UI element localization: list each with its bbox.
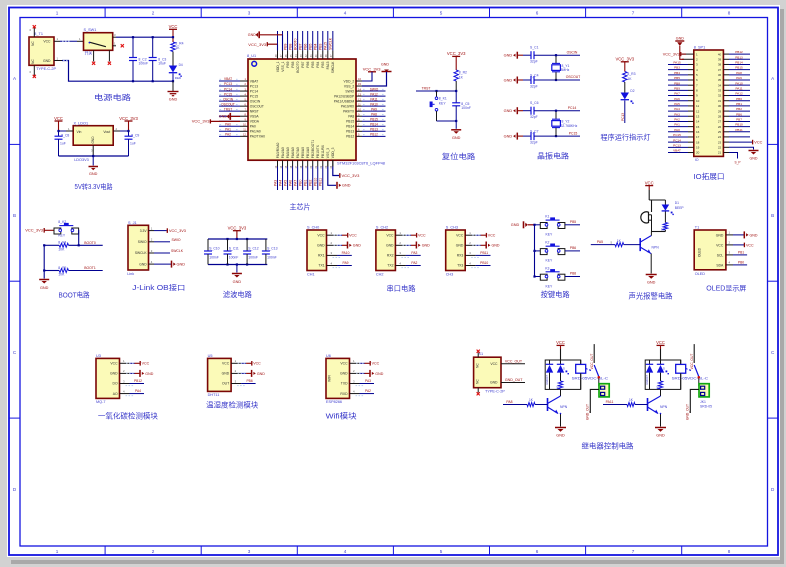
svg-text:39: 39 [718, 57, 722, 61]
relay coil box SRD-05VDC-SL-C [545, 360, 609, 389]
svg-text:PB13: PB13 [346, 130, 354, 134]
ground flag S_C4 row [504, 77, 523, 84]
svg-text:6: 6 [536, 549, 539, 554]
svg-text:3: 3 [248, 549, 251, 554]
svg-text:4: 4 [344, 549, 347, 554]
U3 pin1 VCC [120, 359, 150, 366]
IO header SP1 left pin 4 PB3 [668, 66, 698, 72]
connector S_CH0 CH1 [307, 226, 327, 277]
svg-text:K1: K1 [545, 215, 549, 219]
MCU U1 top pin PA15 [324, 31, 330, 69]
U6 pin3 PA3 [350, 379, 375, 386]
svg-text:19: 19 [696, 146, 700, 150]
svg-text:PA4/A0: PA4/A0 [281, 147, 285, 158]
svg-text:37: 37 [718, 68, 722, 72]
svg-text:PB12: PB12 [735, 50, 743, 54]
svg-text:VCC_3V3: VCC_3V3 [25, 228, 44, 233]
svg-text:VCC_3V3: VCC_3V3 [119, 116, 138, 121]
power port VCC relay [656, 340, 665, 360]
pushbutton K3 KEY [535, 266, 565, 288]
svg-text:30: 30 [718, 104, 722, 108]
svg-text:PB14: PB14 [346, 125, 354, 129]
svg-text:VCC: VCC [556, 340, 565, 345]
svg-text:PC13: PC13 [673, 143, 681, 147]
svg-text:滤波电路: 滤波电路 [223, 290, 252, 299]
svg-text:8_R4: 8_R4 [175, 41, 183, 45]
svg-text:100nF: 100nF [139, 61, 149, 65]
IO header SP1 right pin 32 PA12 [718, 92, 750, 98]
U5 pin3 PB6 [231, 379, 256, 386]
svg-text:PA2: PA2 [365, 389, 371, 393]
svg-text:PB6: PB6 [570, 246, 576, 250]
svg-text:PA3: PA3 [674, 112, 680, 116]
svg-text:MQ-7: MQ-7 [96, 400, 106, 404]
svg-text:一氧化碳检测模块: 一氧化碳检测模块 [98, 411, 158, 420]
svg-text:U3: U3 [96, 354, 101, 358]
IO header SP1 right pin 22 [718, 146, 722, 150]
ground flag keys [511, 221, 535, 228]
capacitor S_C11 100nF [224, 239, 239, 265]
svg-text:GND: GND [504, 109, 513, 113]
svg-text:PA1: PA1 [225, 128, 231, 132]
svg-text:OLED显示屏: OLED显示屏 [706, 285, 746, 293]
wire VCC to Vin [57, 127, 73, 132]
svg-text:VDD_3: VDD_3 [331, 147, 335, 158]
svg-text:PB14: PB14 [370, 122, 378, 126]
svg-text:S_CH0: S_CH0 [307, 226, 319, 230]
MCU U1 right pin PA10/RX [341, 102, 386, 108]
svg-text:SWCLK: SWCLK [171, 249, 184, 253]
svg-text:继电器控制电路: 继电器控制电路 [582, 441, 634, 450]
svg-text:29: 29 [718, 109, 722, 113]
svg-text:PB9: PB9 [286, 61, 290, 67]
svg-text:GND: GND [317, 244, 325, 248]
svg-text:B: B [771, 213, 774, 218]
svg-text:12: 12 [696, 109, 700, 113]
capacitor S_C6 32pF [523, 101, 580, 119]
svg-text:PA9: PA9 [736, 76, 742, 80]
MCU U1 right pin PA8 [348, 112, 385, 118]
IO header SP1 right pin 21 [718, 151, 722, 155]
svg-text:VCC: VCC [372, 362, 380, 366]
flyback diode 1N4007 [545, 360, 553, 389]
svg-text:40: 40 [718, 52, 722, 56]
MCU U1 right pin VSS_2 [344, 82, 362, 88]
svg-text:GND: GND [504, 78, 513, 82]
svg-text:PC15: PC15 [250, 94, 258, 98]
svg-text:B: B [13, 213, 16, 218]
wire T1 VCC to switch SW1 [54, 37, 84, 41]
svg-text:VBAT: VBAT [673, 149, 681, 153]
IO header SP1 left pin 13 PA3 [668, 112, 700, 118]
svg-text:VCC: VCC [418, 234, 426, 238]
power wire VCC_3V3 to U1 VDD_1 [248, 42, 277, 50]
svg-text:PB10: PB10 [735, 123, 743, 127]
svg-text:PA10: PA10 [735, 81, 743, 85]
svg-text:S_C13: S_C13 [267, 247, 277, 251]
resistor 1K alarm [661, 212, 668, 232]
svg-text:S_SW1: S_SW1 [84, 28, 97, 32]
svg-text:8_Y1: 8_Y1 [562, 64, 570, 68]
MCU U1 pin 7 NRST [219, 107, 259, 113]
zone letter strip [9, 76, 778, 492]
ground flag at U1 VSSA [219, 113, 240, 120]
ground GND alarm [646, 275, 657, 285]
caption IO拓展口 [694, 172, 725, 181]
svg-text:OLED: OLED [698, 247, 702, 257]
no-connect X top of T1 [33, 25, 36, 28]
svg-text:RX2: RX2 [387, 254, 394, 258]
IO header SP1 right pin 38 PB14 [718, 61, 750, 67]
wire K2 to PB6 [565, 246, 580, 251]
svg-text:CH2: CH2 [376, 272, 384, 276]
IO header SP1 left pin 11 PA5 [668, 102, 699, 108]
no-connect X top of relay TYPE-C [477, 350, 480, 353]
resistor 8_R3 1K indicator [623, 72, 636, 83]
svg-text:32pF: 32pF [530, 141, 538, 145]
svg-text:VCC: VCC [488, 234, 496, 238]
MCU U1 right pin SWIO [345, 87, 385, 93]
svg-text:Vout: Vout [103, 130, 110, 134]
MCU U1 top pin PB6 [304, 31, 310, 68]
wire LDO ground rail [59, 145, 129, 165]
svg-text:S_C12: S_C12 [248, 247, 258, 251]
svg-text:PB7: PB7 [299, 43, 303, 50]
IO header SP1 right pin 37 PB15 [718, 66, 750, 72]
svg-text:GND: GND [139, 262, 147, 266]
U6 pin2 GND [350, 369, 384, 377]
transistor NPN relay driver [648, 389, 668, 426]
svg-text:PB1/A0: PB1/A0 [306, 147, 310, 158]
capacitor S_C13 100nF [262, 239, 278, 265]
connector T1 TYPE-C-2P [29, 28, 56, 76]
connector S_J1 J-Link [127, 221, 148, 276]
crystal 8_Y2 32.768KHz [552, 110, 578, 138]
svg-text:GND: GND [342, 184, 351, 188]
svg-text:RX3: RX3 [457, 254, 464, 258]
capacitor 8_C5 100nF reset [452, 91, 471, 121]
caption 串口电路 [387, 284, 416, 293]
IO header SP1 right pin 25 PB11 [718, 128, 750, 134]
caption 主芯片 [290, 202, 311, 211]
svg-text:SRD-05VDC-SL-C: SRD-05VDC-SL-C [572, 377, 609, 381]
svg-text:PB2/BOOT1: PB2/BOOT1 [311, 140, 315, 158]
svg-text:GND: GND [257, 372, 265, 376]
svg-text:PB4: PB4 [316, 61, 320, 67]
IO header SP1 left pin 5 PB4 [668, 71, 698, 77]
svg-text:PA10/RX: PA10/RX [341, 104, 355, 108]
svg-text:VCC: VCC [169, 24, 178, 29]
svg-text:GND: GND [750, 233, 758, 237]
relay coil box SRD-05VDC-SL-C [645, 360, 709, 389]
svg-text:PA6/A0: PA6/A0 [291, 147, 295, 158]
svg-text:1N4007: 1N4007 [645, 375, 649, 385]
svg-text:31: 31 [718, 99, 722, 103]
svg-text:VCC: VCC [142, 362, 150, 366]
MCU U1 pin 4 PC15 [219, 92, 258, 98]
svg-text:VCC: VCC [645, 180, 654, 185]
svg-text:GND: GND [381, 63, 389, 67]
svg-text:Vin: Vin [77, 130, 82, 134]
IO header SP1 right pin 27 PB7 [718, 118, 750, 124]
flyback diode 1N4007 [645, 360, 653, 389]
svg-text:VCC: VCC [386, 234, 394, 238]
svg-text:按键电路: 按键电路 [541, 290, 570, 299]
svg-text:OSCOUT: OSCOUT [221, 102, 235, 106]
junction node rail C2 [132, 36, 134, 82]
svg-text:PA1/A0: PA1/A0 [250, 130, 261, 134]
LED D4 [169, 63, 183, 80]
regulator X_LDO1 LDO3V3 [73, 121, 113, 162]
IO header SP1 right pin 36 PA8 [718, 71, 750, 77]
wire K3 to PB8 [565, 272, 580, 277]
switch S_SW1 [84, 28, 113, 62]
svg-text:TX2: TX2 [387, 264, 393, 268]
svg-text:KEY: KEY [58, 234, 66, 238]
svg-text:PB10: PB10 [480, 261, 488, 265]
power port VCC_3V3 indicator [615, 57, 634, 72]
capacitor S_C4 32pF [523, 74, 580, 89]
svg-text:PB9: PB9 [283, 43, 287, 50]
svg-text:S_C1: S_C1 [530, 46, 539, 50]
svg-text:PB8: PB8 [674, 81, 680, 85]
svg-text:20: 20 [696, 151, 700, 155]
MCU U1 right pin PB13 [346, 128, 385, 134]
no-connect X bottom of T1 [33, 75, 36, 78]
wire T1 GND to bottom rail [54, 56, 133, 81]
ground flag S_C1 row [504, 52, 523, 59]
pushbutton K1 KEY [535, 215, 565, 237]
LED D2 indicator [621, 89, 635, 104]
capacitor S_C10 100nF [204, 239, 220, 265]
svg-text:VSS_3: VSS_3 [326, 148, 330, 158]
connector 8_SP1 IO header [694, 46, 724, 162]
caption 5V转3.3V电路 [75, 182, 113, 191]
svg-text:8_R3: 8_R3 [627, 72, 635, 76]
svg-text:PA8: PA8 [348, 115, 354, 119]
svg-text:SRD-05: SRD-05 [700, 405, 712, 409]
svg-text:1K: 1K [556, 386, 560, 390]
svg-text:10K: 10K [58, 273, 65, 277]
svg-text:2: 2 [152, 549, 155, 554]
MCU U1 bottom pin VSS_3 [325, 148, 330, 169]
svg-text:SWCLK: SWCLK [135, 251, 148, 255]
J-Link pin1 wire VCC_3V3 [149, 226, 186, 233]
svg-text:复位电路: 复位电路 [442, 152, 476, 161]
svg-text:GND: GND [492, 244, 500, 248]
IO header SP1 right pin 40 PB12 [718, 50, 750, 56]
svg-text:BEEP: BEEP [675, 206, 685, 210]
IO header SP1 right pin 26 PB10 [718, 123, 750, 129]
svg-text:PB5: PB5 [311, 61, 315, 67]
svg-text:PB8: PB8 [570, 272, 576, 276]
svg-text:SWCLK: SWCLK [331, 61, 335, 74]
svg-text:GND: GND [40, 286, 49, 290]
svg-text:5V转3.3V电路: 5V转3.3V电路 [75, 182, 113, 191]
svg-text:D: D [663, 367, 665, 371]
svg-text:PA10: PA10 [370, 102, 378, 106]
svg-text:2: 2 [152, 11, 155, 16]
svg-text:NPN: NPN [660, 405, 668, 409]
svg-text:JK1: JK1 [700, 400, 706, 404]
svg-text:PA0: PA0 [250, 125, 256, 129]
power wire VCC_3V3 to SP1 pin1 [663, 52, 686, 57]
relay LED resistor 1K [656, 373, 663, 390]
svg-text:GND: GND [375, 372, 383, 376]
svg-text:PA7/A0: PA7/A0 [296, 147, 300, 158]
J-Link pin3 wire SWCLK [149, 249, 184, 253]
svg-text:TYPE-C-2P: TYPE-C-2P [36, 67, 56, 71]
MCU U1 bottom pin PA7/A0 [294, 147, 300, 190]
svg-text:K2: K2 [545, 241, 549, 245]
svg-text:PB7: PB7 [301, 61, 305, 67]
U3 pin2 GND [120, 369, 154, 377]
svg-text:8_C9: 8_C9 [131, 134, 139, 138]
svg-text:GND: GND [222, 372, 230, 376]
svg-text:WIFI: WIFI [328, 375, 332, 382]
svg-text:25: 25 [718, 130, 722, 134]
svg-text:PB12: PB12 [134, 379, 142, 383]
svg-text:18: 18 [696, 140, 700, 144]
svg-text:OSCIN: OSCIN [567, 50, 578, 54]
svg-text:GND: GND [219, 115, 227, 119]
svg-text:NPN: NPN [652, 245, 660, 249]
no-connect X switch pin 3 [108, 62, 111, 65]
svg-text:S_C11: S_C11 [229, 247, 239, 251]
svg-text:4: 4 [344, 11, 347, 16]
svg-text:VCC_OUT: VCC_OUT [590, 354, 594, 370]
module U3 MQ-7 [96, 354, 120, 404]
svg-text:PB11: PB11 [735, 128, 743, 132]
alarm top rail wire [649, 200, 665, 212]
svg-text:PB4: PB4 [314, 43, 318, 50]
svg-text:GND: GND [89, 172, 98, 176]
svg-text:VDD_1: VDD_1 [276, 61, 280, 72]
MCU U1 bottom pin PA6/A0 [288, 147, 294, 190]
U3 pin4 PA4 [120, 389, 145, 396]
svg-text:8: 8 [728, 549, 731, 554]
svg-text:VSSA: VSSA [250, 115, 260, 119]
svg-text:GND: GND [647, 281, 656, 285]
svg-text:NC: NC [31, 41, 35, 46]
svg-text:34: 34 [718, 83, 722, 87]
svg-text:VCC: VCC [746, 243, 754, 247]
IO header SP1 left pin 14 PA2 [668, 118, 700, 124]
MCU U1 bottom pin VDD_3 [330, 147, 335, 168]
svg-text:28: 28 [718, 114, 722, 118]
svg-text:7: 7 [632, 549, 635, 554]
caption 一氧化碳检测模块 [98, 411, 158, 420]
caption 晶振电路 [537, 152, 569, 161]
svg-text:PB5: PB5 [309, 43, 313, 50]
svg-text:PB3: PB3 [674, 66, 680, 70]
svg-text:VCC_3V3: VCC_3V3 [228, 225, 247, 230]
capacitor 8_C8 1uF [55, 131, 70, 156]
svg-text:OLED: OLED [695, 272, 706, 276]
svg-text:VCC: VCC [43, 40, 51, 44]
svg-text:PB14: PB14 [735, 61, 743, 65]
resistor 8_R4 10K BOOT0 [44, 241, 102, 252]
svg-text:PA3/RXA0: PA3/RXA0 [276, 143, 280, 159]
power port VCC at SP1 [723, 140, 762, 145]
svg-text:GND: GND [110, 372, 118, 376]
keys bus wire [533, 224, 535, 278]
svg-text:OSCIN: OSCIN [250, 99, 261, 103]
wire GND_OUT lead relay [685, 389, 699, 420]
svg-text:OUT: OUT [222, 382, 229, 386]
svg-text:PA8: PA8 [506, 400, 512, 404]
wire R3 to LED D2 [624, 82, 626, 93]
capacitor 8_C9 1uF [125, 131, 140, 156]
svg-text:VDD_2: VDD_2 [344, 79, 355, 83]
svg-text:PA12: PA12 [735, 92, 743, 96]
svg-text:PB3: PB3 [319, 43, 323, 50]
svg-text:3.3V: 3.3V [140, 229, 148, 233]
svg-text:32: 32 [718, 94, 722, 98]
svg-text:8_U1: 8_U1 [247, 54, 256, 58]
svg-text:AO: AO [113, 392, 118, 396]
svg-text:PA7: PA7 [674, 92, 680, 96]
svg-text:PB0/A0: PB0/A0 [301, 147, 305, 158]
svg-text:PB2: PB2 [736, 107, 742, 111]
svg-text:TX1: TX1 [318, 264, 324, 268]
svg-text:GND: GND [340, 372, 348, 376]
svg-text:PB0: PB0 [736, 97, 742, 101]
svg-text:PC13: PC13 [250, 84, 258, 88]
MCU U1 pin 8 VSSA [219, 112, 259, 118]
svg-text:OSCOUT: OSCOUT [566, 75, 581, 79]
svg-text:PA2: PA2 [674, 118, 680, 122]
svg-text:KEY: KEY [439, 101, 447, 105]
capacitor S_C12 100nF [243, 239, 259, 265]
svg-text:PA3: PA3 [411, 251, 417, 255]
ground flag at U1 VSS_3 [328, 160, 351, 189]
svg-text:PA2: PA2 [225, 133, 231, 137]
svg-text:SRD-05VDC-SL-C: SRD-05VDC-SL-C [672, 377, 709, 381]
MCU U1 pin 5 OSCIN [219, 97, 261, 103]
S_CH2 pin2 GND [395, 241, 430, 248]
svg-text:GND: GND [91, 136, 95, 144]
IO header SP1 left pin 8 PB9 [668, 86, 698, 92]
MCU U1 bottom pin PB11/RX [319, 144, 325, 190]
svg-text:PA9: PA9 [343, 261, 349, 265]
alarm emitter wire [650, 254, 652, 274]
svg-text:PA9: PA9 [371, 107, 377, 111]
relay contact and VCC_OUT lead [686, 344, 700, 379]
svg-text:1uF: 1uF [130, 142, 136, 146]
svg-text:OSCOUT: OSCOUT [250, 104, 264, 108]
wire LED D2 to PC13 [621, 101, 625, 124]
module U5 DHT11 [208, 354, 232, 397]
U3 pin3 PB12 [120, 379, 145, 386]
svg-text:GND: GND [716, 233, 724, 237]
wire base resistor 1K relay [603, 398, 648, 406]
svg-text:BOOT电路: BOOT电路 [59, 291, 90, 300]
svg-text:8_T1: 8_T1 [34, 32, 43, 36]
svg-text:1K: 1K [656, 386, 660, 390]
svg-text:SCL: SCL [717, 253, 724, 257]
IO header SP1 right pin 29 PB2 [718, 107, 750, 113]
svg-text:PA5/A0: PA5/A0 [286, 147, 290, 158]
svg-text:TYPE-C-2P: TYPE-C-2P [485, 389, 505, 393]
svg-text:LDO3V3: LDO3V3 [74, 158, 89, 162]
resistor 8_R2 1K reset [454, 70, 467, 81]
svg-text:24: 24 [718, 135, 722, 139]
U5 pin1 VCC [231, 359, 261, 366]
OLED pin1 GND flag [726, 231, 758, 239]
MCU U1 pin 9 VDDA [219, 117, 260, 123]
svg-text:PC13: PC13 [224, 82, 232, 86]
